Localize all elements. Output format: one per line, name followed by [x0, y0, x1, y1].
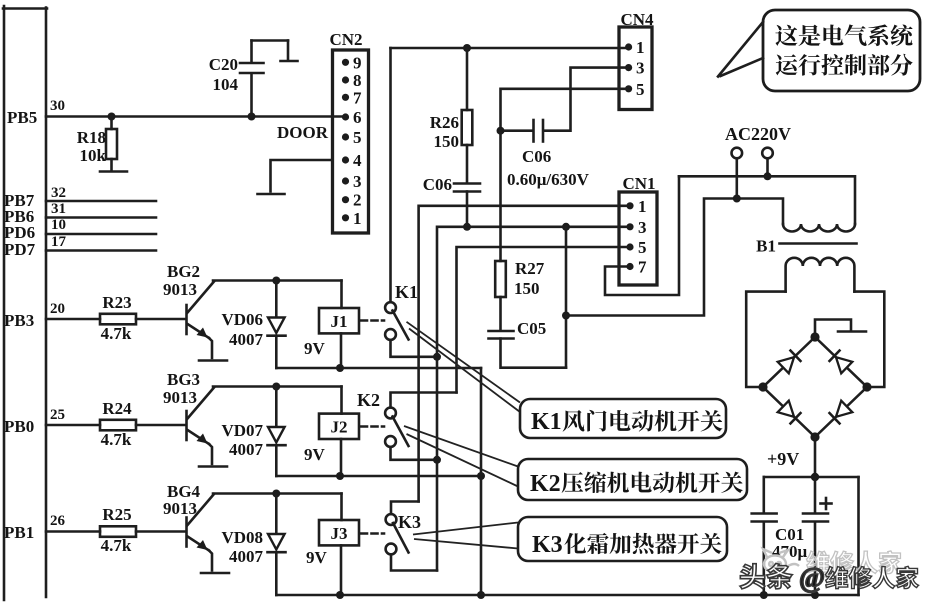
diode bridge top-right — [829, 350, 853, 374]
ground C20 — [281, 60, 298, 63]
svg-text:BG3: BG3 — [167, 370, 200, 389]
wire to AC left — [566, 199, 783, 316]
svg-text:31: 31 — [51, 201, 66, 217]
wire PB3 to R23 — [46, 318, 100, 321]
svg-text:PB3: PB3 — [4, 311, 34, 330]
svg-text:PB5: PB5 — [7, 108, 37, 127]
svg-text:VD07: VD07 — [221, 421, 263, 440]
svg-text:J1: J1 — [331, 312, 348, 331]
svg-text:30: 30 — [50, 98, 65, 114]
svg-text:4.7k: 4.7k — [101, 430, 132, 449]
svg-text:BG2: BG2 — [167, 262, 200, 281]
wire CN1 pin1 to K3 — [419, 206, 629, 502]
wire pin3 column to AC — [565, 227, 568, 368]
callout box K3 — [518, 517, 727, 561]
wire collector bus 1 — [213, 279, 342, 282]
svg-text:5: 5 — [353, 128, 362, 147]
wire top net CN4 pin1 — [391, 47, 629, 50]
svg-text:R23: R23 — [102, 293, 131, 312]
capacitor C02 — [752, 477, 777, 595]
svg-text:9: 9 — [353, 53, 362, 72]
wire bridge top to earth — [815, 320, 851, 338]
wire PB1 to R25 — [46, 530, 100, 533]
capacitor C06a — [454, 184, 480, 227]
svg-text:4.7k: 4.7k — [101, 536, 132, 555]
wire K1 bottom — [391, 340, 438, 357]
svg-text:20: 20 — [50, 301, 65, 317]
callout box K1 — [520, 399, 726, 438]
wire right edge — [857, 477, 860, 595]
connector CN4 — [619, 27, 652, 110]
node pin3-AC branch — [562, 223, 570, 231]
terminal AC right — [762, 148, 773, 159]
wire relay link K3 — [361, 532, 384, 535]
diode bridge bottom-right — [829, 400, 853, 424]
svg-text:3: 3 — [353, 172, 362, 191]
wire bottom bus — [276, 594, 858, 597]
callout box K2 — [518, 459, 747, 500]
svg-text:C06: C06 — [522, 147, 551, 166]
wire return drop — [480, 368, 483, 595]
resistor R23 — [100, 314, 136, 325]
svg-text:26: 26 — [50, 513, 66, 529]
svg-text:PB0: PB0 — [4, 417, 34, 436]
diode VD08 — [268, 494, 286, 596]
wire down to switch K1 — [389, 48, 392, 302]
relay J1 — [319, 281, 359, 369]
speech bubble — [718, 10, 920, 91]
wire bridge bottom +9V — [814, 437, 817, 477]
earth bar — [838, 330, 866, 333]
wire R24 to base — [136, 424, 185, 427]
svg-text:4007: 4007 — [229, 547, 264, 566]
svg-text:0.60μ/630V: 0.60μ/630V — [507, 170, 590, 189]
wire K2 top — [391, 393, 457, 408]
wire stage2 return — [276, 475, 481, 478]
svg-text:R24: R24 — [102, 399, 132, 418]
svg-text:+9V: +9V — [767, 449, 799, 469]
switch K3 — [386, 514, 409, 554]
svg-text:150: 150 — [514, 279, 540, 298]
ground CN2 pin4 — [258, 193, 285, 196]
wire K2 bottom — [391, 447, 438, 460]
watermark dark text toutiao — [740, 563, 792, 588]
wire CN1 pin3 bus — [437, 227, 629, 571]
transformer core — [780, 242, 857, 245]
svg-text:10: 10 — [51, 217, 66, 233]
svg-text:470μ: 470μ — [772, 542, 808, 561]
wire AC right stem — [766, 158, 769, 176]
svg-text:32: 32 — [51, 185, 66, 201]
ground BG2 emitter — [199, 359, 227, 362]
svg-text:K3: K3 — [532, 532, 563, 558]
svg-text:9013: 9013 — [163, 499, 197, 518]
transformer B1 secondary — [786, 258, 855, 292]
wire relay link K2 — [361, 425, 384, 428]
ground BG3 emitter — [199, 465, 227, 468]
diode VD06 — [268, 281, 286, 369]
resistor R18 — [106, 117, 117, 171]
wire R23 to base — [136, 318, 185, 321]
svg-text:J2: J2 — [331, 418, 348, 437]
transformer B1 primary — [783, 224, 855, 232]
svg-text:CN1: CN1 — [622, 174, 655, 193]
label operation control part — [776, 54, 913, 76]
svg-text:PD7: PD7 — [4, 240, 36, 259]
svg-text:K1: K1 — [531, 409, 562, 435]
svg-text:10k: 10k — [80, 146, 107, 165]
svg-text:C06: C06 — [423, 175, 452, 194]
svg-text:6: 6 — [353, 108, 362, 127]
svg-text:2: 2 — [353, 191, 362, 210]
svg-text:7: 7 — [353, 88, 362, 107]
wire CN1 pin7 to transformer — [605, 176, 679, 295]
svg-text:CN4: CN4 — [620, 10, 654, 29]
capacitor C01 — [803, 477, 832, 595]
svg-text:K2: K2 — [357, 390, 380, 410]
IC block left edge — [3, 6, 47, 600]
svg-text:7: 7 — [638, 258, 647, 277]
relay J3 — [319, 494, 359, 596]
terminal AC left — [732, 148, 743, 159]
svg-text:C05: C05 — [517, 319, 546, 338]
connector CN1 — [619, 192, 657, 285]
svg-text:C20: C20 — [209, 55, 238, 74]
wire K3 top — [391, 502, 419, 515]
switch K2 — [385, 408, 408, 447]
resistor R27 — [495, 131, 506, 330]
svg-text:4007: 4007 — [229, 440, 264, 459]
diode VD07 — [268, 387, 286, 477]
svg-text:DOOR: DOOR — [277, 123, 329, 142]
transistor BG4 — [187, 494, 215, 571]
resistor R26 — [462, 48, 473, 183]
svg-text:5: 5 — [638, 238, 647, 257]
capacitor C06b 0.60u — [534, 120, 544, 142]
svg-text:3: 3 — [636, 59, 645, 78]
wire PB5 to CN2 pin6 — [46, 115, 345, 118]
watermark logo — [763, 549, 799, 573]
svg-text:R26: R26 — [430, 113, 459, 132]
wire K3 bottom — [391, 555, 437, 571]
ground BG4 emitter — [201, 572, 229, 575]
watermark gray text — [807, 551, 902, 574]
resistor R25 — [100, 526, 136, 537]
wire collector bus 3 — [213, 492, 342, 495]
svg-text:R25: R25 — [102, 505, 131, 524]
svg-text:1: 1 — [353, 209, 362, 228]
label this is electrical system — [775, 24, 912, 46]
callout wedge K3 — [413, 523, 518, 549]
svg-text:1: 1 — [636, 38, 645, 57]
svg-text:8: 8 — [353, 71, 362, 90]
svg-text:9V: 9V — [304, 445, 326, 464]
node R26 top — [463, 44, 471, 52]
wire relay link K1 — [361, 319, 384, 322]
svg-text:R27: R27 — [515, 259, 545, 278]
wire 9V rail — [764, 476, 859, 479]
svg-text:150: 150 — [434, 132, 460, 151]
transistor BG2 — [187, 282, 215, 359]
node cap left — [497, 127, 505, 135]
svg-text:9V: 9V — [306, 548, 328, 567]
bridge rectifier — [758, 332, 871, 441]
svg-text:3: 3 — [638, 218, 647, 237]
resistor R24 — [100, 420, 136, 431]
wire collector bus 2 — [213, 385, 342, 388]
svg-text:9013: 9013 — [163, 388, 197, 407]
node R18 junction — [108, 113, 116, 121]
diode bridge bottom-left — [777, 400, 801, 424]
callout wedge K2 — [404, 426, 518, 487]
svg-text:104: 104 — [213, 75, 239, 94]
svg-text:R18: R18 — [77, 128, 106, 147]
ground R18 — [100, 170, 127, 173]
relay J2 — [319, 387, 359, 477]
wire AC line to primary — [679, 176, 855, 224]
wire R25 to base — [136, 530, 185, 533]
callout wedge K1 — [407, 322, 521, 412]
capacitor C20 — [240, 41, 288, 117]
svg-text:9013: 9013 — [163, 280, 197, 299]
transistor BG3 — [187, 388, 215, 465]
svg-text:VD08: VD08 — [221, 528, 263, 547]
wire PB0 to R24 — [46, 424, 100, 427]
svg-text:9V: 9V — [304, 339, 326, 358]
capacitor C05 — [489, 331, 567, 368]
connector CN2 — [333, 50, 369, 233]
diode bridge top-left — [777, 350, 801, 374]
wire AC left stem — [735, 158, 738, 198]
node C06 bottom — [463, 223, 471, 231]
svg-text:4.7k: 4.7k — [101, 324, 132, 343]
wire CN4 pin3 to cap — [544, 68, 629, 131]
svg-text:5: 5 — [636, 80, 645, 99]
svg-text:PB1: PB1 — [4, 523, 34, 542]
svg-text:25: 25 — [50, 407, 65, 423]
wire CN4 pin5 to cap — [501, 89, 629, 131]
wire secondary right to bridge — [854, 292, 884, 387]
svg-text:AC220V: AC220V — [725, 124, 791, 144]
svg-text:B1: B1 — [756, 237, 776, 256]
svg-text:@: @ — [799, 563, 825, 594]
svg-text:K1: K1 — [395, 282, 418, 302]
svg-text:17: 17 — [51, 234, 67, 250]
wire CN1 pin5 to K2 — [457, 247, 629, 393]
svg-text:1: 1 — [638, 197, 647, 216]
switch K1 — [385, 302, 408, 340]
svg-text:J3: J3 — [331, 524, 348, 543]
svg-text:4007: 4007 — [229, 330, 264, 349]
node AC branch — [562, 312, 570, 320]
wire CN2 pin4 to ground — [271, 160, 333, 192]
svg-text:CN2: CN2 — [329, 30, 362, 49]
wire stage1 return — [276, 367, 481, 370]
wire secondary left to bridge — [746, 292, 785, 387]
svg-text:VD06: VD06 — [221, 310, 263, 329]
node C20 junction — [248, 113, 256, 121]
svg-text:K3: K3 — [398, 512, 421, 532]
svg-text:K2: K2 — [530, 471, 561, 497]
svg-text:4: 4 — [353, 151, 362, 170]
